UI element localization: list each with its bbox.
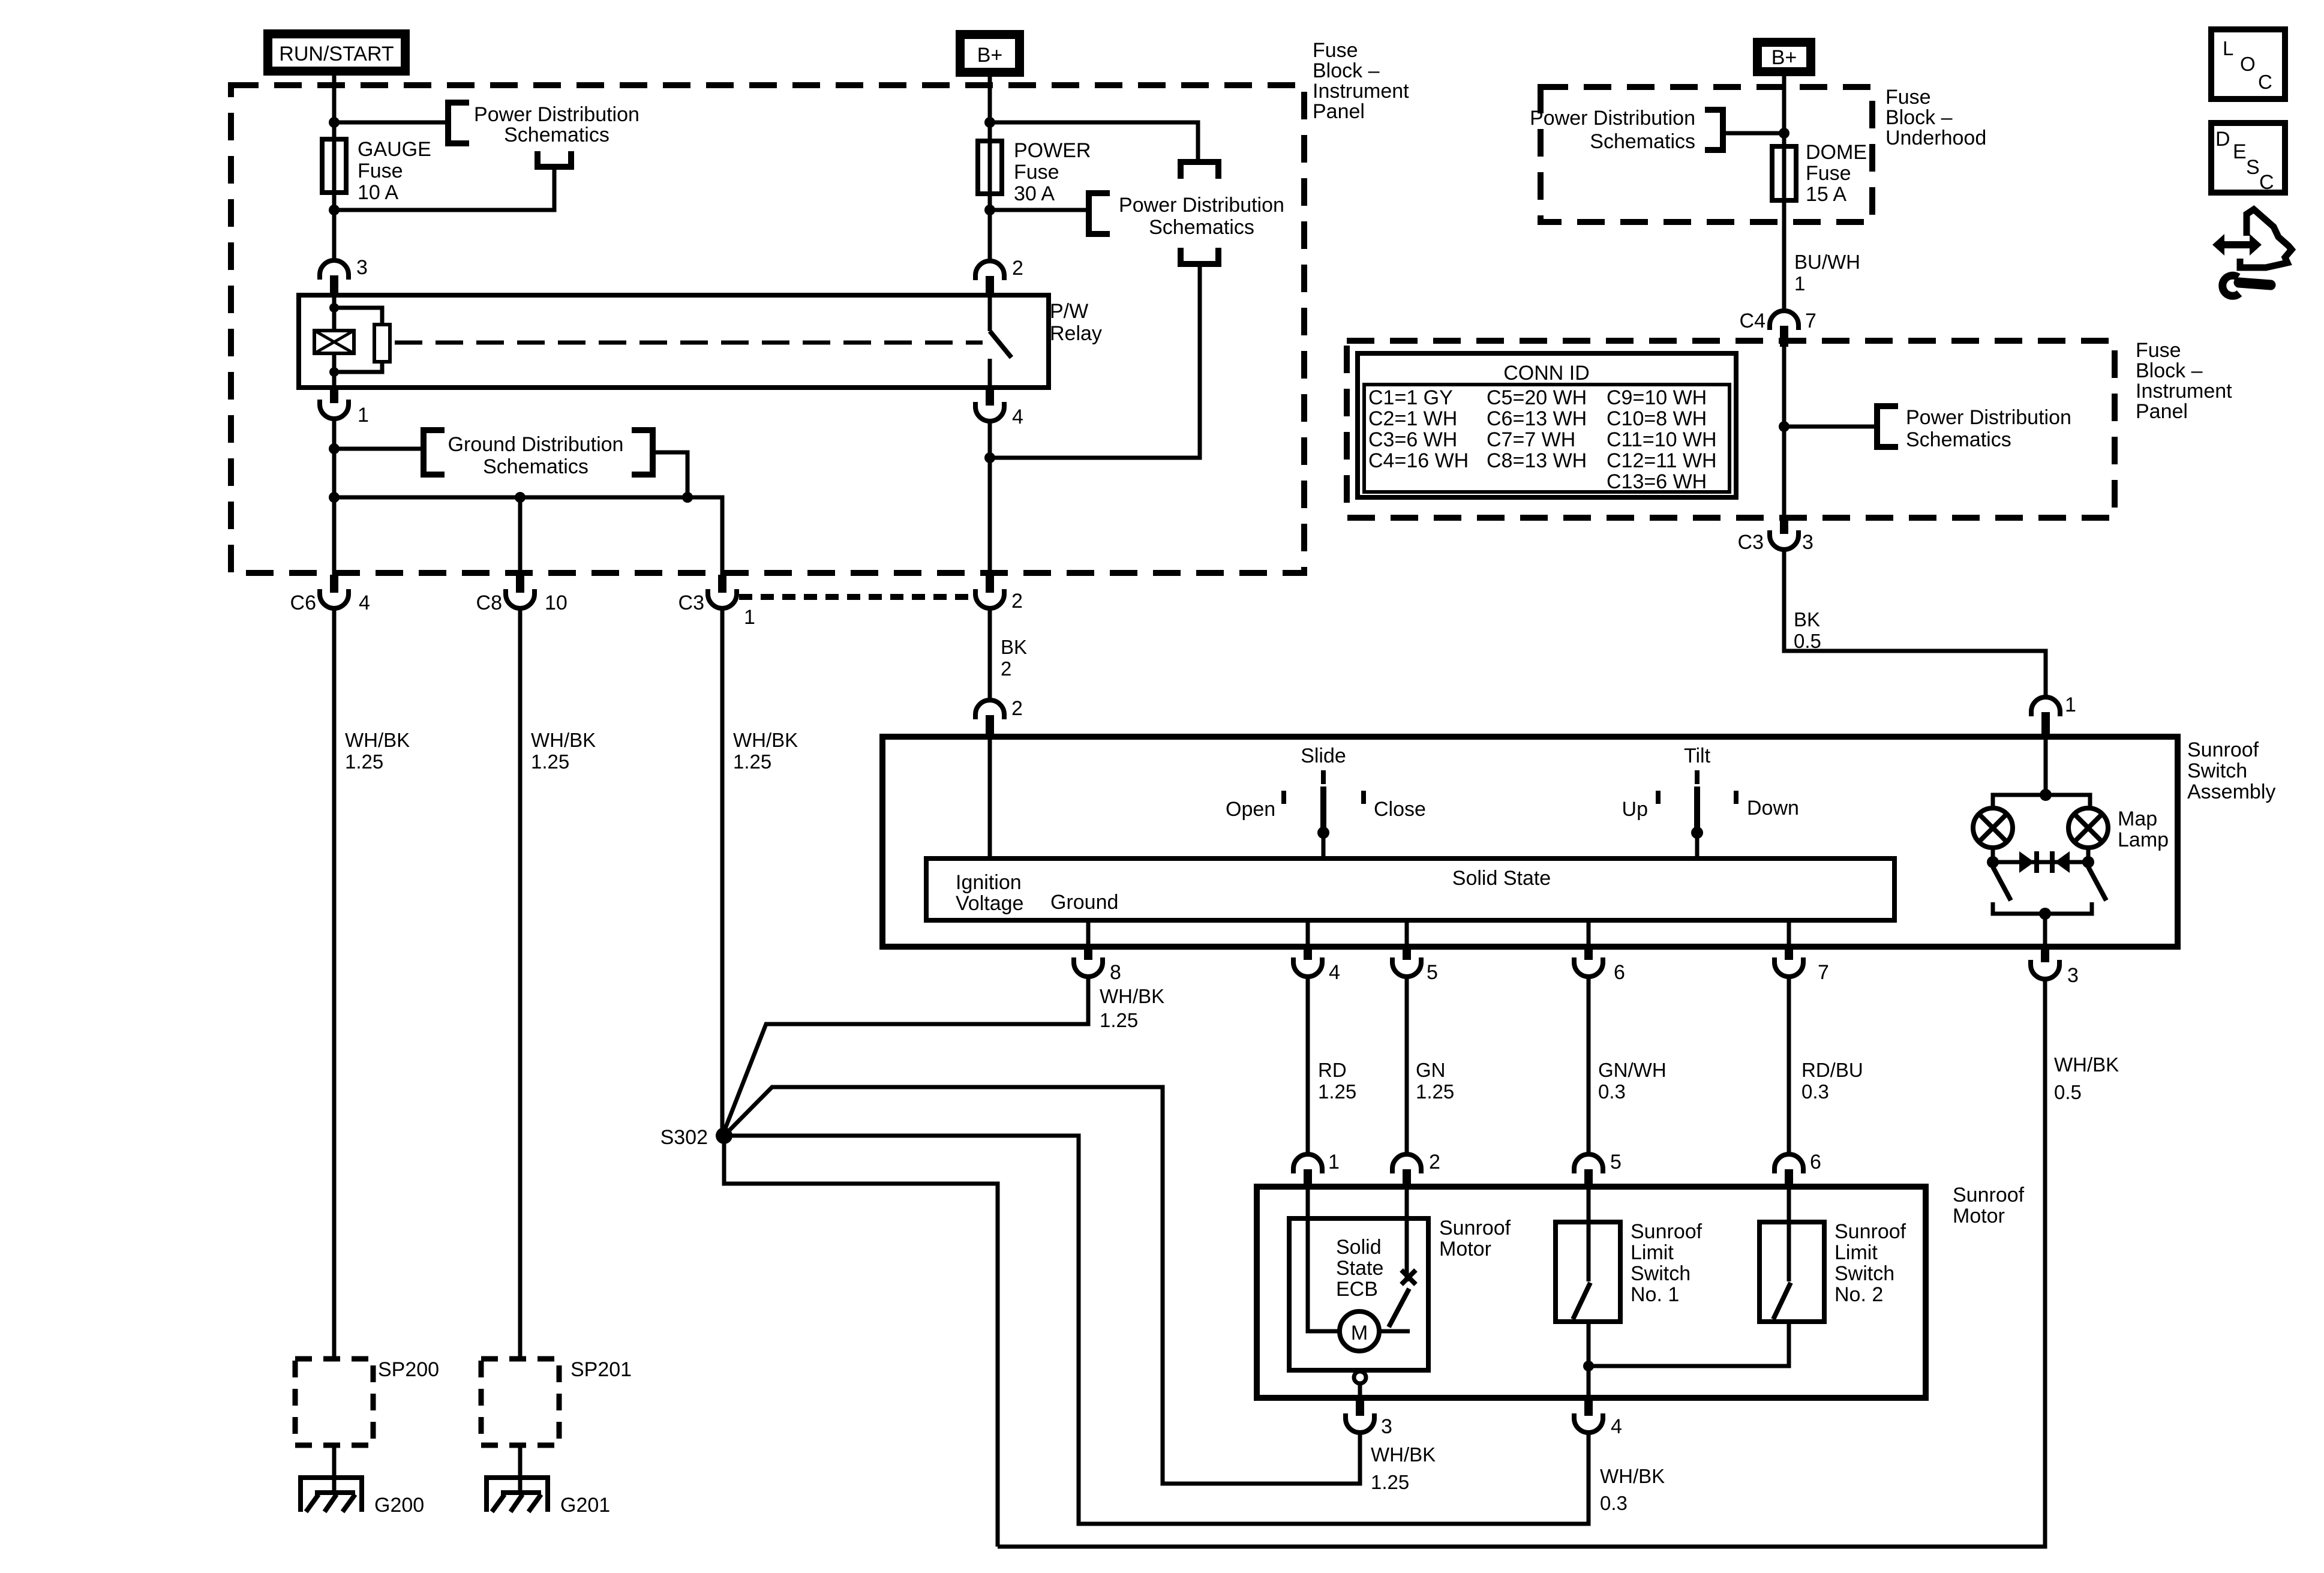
node map lamp top junction xyxy=(2040,789,2052,801)
svg-text:ECB: ECB xyxy=(1336,1278,1378,1301)
node junction below gauge fuse xyxy=(329,205,340,215)
wire label RD/BU 0.3 xyxy=(1801,1059,1863,1103)
svg-text:C6: C6 xyxy=(290,592,316,614)
svg-text:Sunroof: Sunroof xyxy=(1953,1184,2025,1206)
icon part outline xyxy=(2240,209,2292,268)
bracket PDS top (ref 2) xyxy=(1181,162,1218,179)
bracket PDS bottom return (ref 2) xyxy=(1181,248,1218,264)
wire label WH/BK 1.25 (pin 8) xyxy=(1100,985,1164,1031)
connector pin 3 of P/W relay xyxy=(320,260,349,295)
svg-text:GN: GN xyxy=(1416,1059,1446,1081)
wire bracket to B+ wire xyxy=(1723,131,1784,136)
label GAUGE Fuse 10 A xyxy=(358,138,431,204)
contact tick close xyxy=(1361,791,1366,804)
wire switch1 bottom xyxy=(1587,1322,1591,1398)
connector pin 4 of P/W relay xyxy=(975,388,1004,421)
fuse POWER 30A xyxy=(978,141,1002,210)
bracket PDS ref 4 xyxy=(1877,406,1898,447)
wire pin7 down to motor conn 6 xyxy=(1787,977,1791,1155)
svg-text:SP201: SP201 xyxy=(571,1358,632,1381)
svg-text:C5=20 WH: C5=20 WH xyxy=(1487,386,1587,409)
bracket PDS right-facing (ref 3) xyxy=(1705,110,1723,150)
svg-text:Block –: Block – xyxy=(1313,59,1380,82)
label C8 10 xyxy=(476,592,568,614)
svg-text:Open: Open xyxy=(1226,798,1275,821)
svg-text:WH/BK: WH/BK xyxy=(345,729,410,751)
icon DESC box xyxy=(2211,123,2285,194)
motor M circle xyxy=(1340,1311,1379,1351)
svg-text:C3=6 WH: C3=6 WH xyxy=(1368,428,1457,451)
relay switch contact top xyxy=(988,295,992,331)
wire S302 branch to motor pin 3 xyxy=(724,1087,1360,1484)
wire S302 branch to motor pin 4 xyxy=(724,1136,1589,1524)
svg-text:C3: C3 xyxy=(678,592,704,614)
svg-text:0.5: 0.5 xyxy=(1794,630,1821,652)
wire label BK 0.5 xyxy=(1794,608,1821,652)
bracket ground distribution right xyxy=(632,430,653,475)
wire pin7 drop xyxy=(1787,920,1791,947)
svg-text:Sunroof: Sunroof xyxy=(1631,1220,1703,1243)
wire below power fuse to left bracket xyxy=(990,208,1089,212)
wire label WH/BK 1.25 (C6) xyxy=(345,729,410,773)
svg-text:1.25: 1.25 xyxy=(733,751,771,773)
svg-text:D: D xyxy=(2215,128,2230,151)
connector C6 pin 4 xyxy=(320,575,349,608)
bracket ground distribution left xyxy=(424,430,445,475)
svg-text:C7=7 WH: C7=7 WH xyxy=(1487,428,1575,451)
label Power Distribution Schematics ref 2 xyxy=(1119,194,1284,239)
dashed box Fuse Block - Instrument Panel (right) xyxy=(1347,341,2115,518)
svg-text:C10=8 WH: C10=8 WH xyxy=(1607,407,1707,430)
svg-text:2: 2 xyxy=(1011,590,1023,613)
node junction below power fuse xyxy=(984,205,995,215)
svg-text:G200: G200 xyxy=(374,1494,424,1517)
svg-text:1.25: 1.25 xyxy=(345,751,383,773)
svg-text:Fuse: Fuse xyxy=(1313,39,1358,62)
svg-text:Schematics: Schematics xyxy=(483,455,588,478)
label Sunroof Motor (outer) xyxy=(1953,1184,2025,1227)
ECB output open circle xyxy=(1354,1371,1366,1383)
svg-text:C: C xyxy=(2259,171,2274,194)
solid state ECB box xyxy=(1289,1218,1428,1370)
svg-text:C13=6 WH: C13=6 WH xyxy=(1607,470,1707,493)
svg-text:E: E xyxy=(2233,140,2247,163)
svg-text:C9=10 WH: C9=10 WH xyxy=(1607,386,1707,409)
wire map lamp pin1 to lamp bus xyxy=(2044,738,2048,795)
wire junction to switch2 bottom xyxy=(1589,1322,1789,1366)
svg-text:15 A: 15 A xyxy=(1806,183,1846,206)
svg-text:Power Distribution: Power Distribution xyxy=(1119,194,1284,217)
wire label WH/BK 0.5 xyxy=(2054,1053,2119,1103)
svg-text:0.3: 0.3 xyxy=(1600,1492,1628,1514)
svg-text:Block –: Block – xyxy=(2136,359,2203,382)
svg-text:1.25: 1.25 xyxy=(1318,1080,1356,1103)
label Sunroof Limit Switch No. 1 xyxy=(1631,1220,1703,1306)
label C6 4 xyxy=(290,592,370,614)
svg-text:Schematics: Schematics xyxy=(1590,130,1695,153)
relay resistor branch xyxy=(334,308,390,372)
contact tick open xyxy=(1281,791,1286,804)
wire junction to PDS top bracket xyxy=(990,122,1198,159)
connector C3 pin 1 xyxy=(708,575,737,608)
svg-text:P/W: P/W xyxy=(1050,300,1088,323)
svg-text:CONN ID: CONN ID xyxy=(1503,362,1590,385)
lamp bulb right xyxy=(2068,808,2108,848)
bracket PDS left (ref 2b) xyxy=(1089,193,1110,234)
svg-text:2: 2 xyxy=(1012,257,1023,280)
connector pin 5 xyxy=(1392,947,1421,977)
label Ground Distribution Schematics xyxy=(448,433,624,478)
slide switch xyxy=(1317,770,1329,858)
svg-text:Relay: Relay xyxy=(1050,322,1102,345)
connector pin 6 xyxy=(1574,947,1603,977)
svg-text:Ground: Ground xyxy=(1050,891,1118,914)
svg-text:Schematics: Schematics xyxy=(1906,428,2011,451)
svg-text:Slide: Slide xyxy=(1301,745,1346,767)
svg-text:Sunroof: Sunroof xyxy=(2187,739,2259,761)
wire label GN/WH 0.3 xyxy=(1598,1059,1667,1103)
svg-text:DOME: DOME xyxy=(1806,141,1867,164)
svg-text:3: 3 xyxy=(356,256,368,279)
svg-text:7: 7 xyxy=(1818,961,1829,984)
svg-text:Motor: Motor xyxy=(1953,1205,2005,1227)
wire label RD 1.25 xyxy=(1318,1059,1356,1103)
connector 1 at sunroof motor xyxy=(1293,1154,1322,1188)
wire pin5 drop xyxy=(1405,920,1409,947)
svg-text:RD/BU: RD/BU xyxy=(1801,1059,1863,1081)
svg-text:S: S xyxy=(2246,156,2260,179)
label Power Distribution Schematics ref 1 xyxy=(474,103,639,146)
wire B+ down to dome fuse xyxy=(1782,76,1786,146)
connector C8 pin 10 xyxy=(506,575,535,608)
svg-text:C8=13 WH: C8=13 WH xyxy=(1487,449,1587,472)
wire lamp left to diode bus xyxy=(1991,848,1995,867)
svg-text:Down: Down xyxy=(1747,797,1799,819)
wire PDS return down and left to relay pin4 wire xyxy=(990,264,1200,458)
power feed box B+ (right) xyxy=(1753,38,1815,76)
svg-text:Instrument: Instrument xyxy=(2136,380,2232,403)
svg-text:6: 6 xyxy=(1810,1151,1821,1173)
wire return ref 1 to below fuse xyxy=(334,167,554,210)
svg-text:5: 5 xyxy=(1610,1151,1622,1173)
svg-text:C4=16 WH: C4=16 WH xyxy=(1368,449,1469,472)
wire label BU/WH 1 xyxy=(1794,251,1860,295)
svg-text:Fuse: Fuse xyxy=(358,160,403,182)
svg-text:RUN/START: RUN/START xyxy=(279,43,394,65)
label Sunroof Limit Switch No. 2 xyxy=(1834,1220,1906,1306)
wire S302 branch to bottom bus xyxy=(724,1136,998,1547)
connector C3 pin 3 xyxy=(1770,518,1798,550)
svg-text:RD: RD xyxy=(1318,1059,1347,1081)
svg-text:Solid State: Solid State xyxy=(1452,867,1551,890)
dashed box Fuse Block - Underhood xyxy=(1541,87,1872,222)
svg-text:Switch: Switch xyxy=(1834,1262,1894,1285)
wire SP201 to G201 xyxy=(518,1445,523,1493)
connector pin 4 sunroof motor xyxy=(1574,1398,1603,1433)
svg-text:8: 8 xyxy=(1110,961,1121,984)
dashed box Fuse Block - Instrument Panel (left) xyxy=(231,85,1304,573)
label DOME Fuse 15 A xyxy=(1806,141,1867,206)
wire C8 down to SP201 xyxy=(518,608,523,1359)
wire pin6 down to motor conn 5 xyxy=(1587,977,1591,1155)
wire dome fuse down to C4 xyxy=(1782,200,1786,311)
connector 2 in-line (fuse block bottom) xyxy=(975,576,1004,608)
svg-text:4: 4 xyxy=(1329,961,1340,984)
svg-text:1: 1 xyxy=(1328,1151,1340,1173)
svg-text:Map: Map xyxy=(2118,807,2157,830)
svg-text:Motor: Motor xyxy=(1439,1238,1491,1260)
svg-text:O: O xyxy=(2240,53,2256,75)
svg-text:2: 2 xyxy=(1429,1151,1440,1173)
solid state box xyxy=(926,858,1894,920)
connector pin 3 sunroof switch assembly xyxy=(2031,947,2059,979)
svg-text:WH/BK: WH/BK xyxy=(1100,985,1164,1007)
svg-text:C8: C8 xyxy=(476,592,502,614)
svg-text:1.25: 1.25 xyxy=(1416,1080,1454,1103)
svg-text:3: 3 xyxy=(1802,531,1813,554)
svg-text:WH/BK: WH/BK xyxy=(733,729,798,751)
svg-text:BK: BK xyxy=(1001,636,1027,658)
svg-text:State: State xyxy=(1336,1257,1383,1280)
svg-text:4: 4 xyxy=(359,592,370,614)
svg-text:B+: B+ xyxy=(1771,46,1797,69)
sunroof motor box xyxy=(1257,1187,1926,1398)
relay box P/W Relay xyxy=(299,295,1049,388)
wire relay pin 1 down xyxy=(332,419,337,576)
connector pin 1 of P/W relay xyxy=(320,388,349,419)
diode bus wire xyxy=(1993,860,2088,864)
relay switch blade xyxy=(990,331,1011,358)
svg-text:No. 1: No. 1 xyxy=(1631,1283,1679,1306)
svg-text:Power Distribution: Power Distribution xyxy=(1530,107,1695,130)
svg-text:B+: B+ xyxy=(977,44,1003,67)
wire conn2 to ECB switch contact xyxy=(1405,1188,1409,1281)
svg-text:WH/BK: WH/BK xyxy=(2054,1053,2119,1076)
power feed box RUN/START xyxy=(263,29,410,76)
wire label WH/BK 0.3 (motor pin 4) xyxy=(1600,1465,1665,1514)
sunroof limit switch no2 box xyxy=(1759,1222,1824,1322)
svg-text:Power Distribution: Power Distribution xyxy=(474,103,639,126)
label Solid State ECB xyxy=(1336,1236,1383,1301)
ECB switch x mark xyxy=(1401,1270,1416,1284)
label Power Distribution Schematics ref 3 xyxy=(1530,107,1695,153)
svg-text:C3: C3 xyxy=(1738,531,1764,554)
svg-text:Schematics: Schematics xyxy=(504,124,609,146)
relay switch contact bottom xyxy=(988,359,992,388)
label POWER Fuse 30 A xyxy=(1014,139,1091,205)
svg-text:Close: Close xyxy=(1374,798,1426,821)
wire label WH/BK 1.25 (motor pin 3) xyxy=(1371,1443,1436,1493)
wire pin6 drop xyxy=(1587,920,1591,947)
sunroof limit switch no1 box xyxy=(1556,1222,1620,1322)
wire C6 down to SP200 xyxy=(332,608,337,1359)
label P/W Relay xyxy=(1050,300,1102,345)
svg-text:SP200: SP200 xyxy=(378,1358,439,1381)
bracket power distribution schematics ref 1 xyxy=(448,103,469,143)
connector pin 4 xyxy=(1293,947,1322,977)
wire power fuse to relay pin 2 xyxy=(988,210,992,262)
connector 2 at sunroof switch assembly xyxy=(975,700,1004,738)
svg-text:S302: S302 xyxy=(660,1126,708,1149)
label Ignition Voltage xyxy=(956,871,1023,915)
wire conn5 into switch1 xyxy=(1587,1188,1591,1281)
wire conn1 into ECB to motor xyxy=(1308,1188,1340,1331)
svg-text:Voltage: Voltage xyxy=(956,892,1023,915)
svg-text:Limit: Limit xyxy=(1631,1241,1674,1264)
svg-text:Tilt: Tilt xyxy=(1684,745,1711,767)
svg-text:Assembly: Assembly xyxy=(2187,781,2275,803)
wire pin 3 down to bottom bus xyxy=(998,979,2045,1547)
svg-text:C12=11 WH: C12=11 WH xyxy=(1607,449,1717,472)
wire pin 8 to S302 xyxy=(724,977,1088,1131)
wire label WH/BK 1.25 (C8) xyxy=(531,729,596,773)
wire lamp right to diode bus xyxy=(2086,848,2091,867)
svg-text:10: 10 xyxy=(545,592,568,614)
map switch blade left xyxy=(1993,867,2011,900)
svg-text:1.25: 1.25 xyxy=(1100,1009,1138,1031)
wire ground bus horizontal xyxy=(334,497,722,576)
svg-text:Power Distribution: Power Distribution xyxy=(1906,406,2071,429)
svg-text:C2=1 WH: C2=1 WH xyxy=(1368,407,1457,430)
icon double arrow xyxy=(2212,234,2262,256)
wire GDS return down to ground bus xyxy=(653,452,687,497)
ECB switch blade xyxy=(1389,1289,1409,1327)
fuse DOME 15A xyxy=(1772,146,1796,200)
svg-text:WH/BK: WH/BK xyxy=(1600,1465,1665,1487)
ground G201 xyxy=(484,1478,550,1512)
wire pin4 down to motor conn 1 xyxy=(1306,977,1310,1155)
short dashed wire segment under relay area xyxy=(739,594,973,600)
map switch blade right xyxy=(2088,867,2106,900)
sunroof switch assembly box xyxy=(882,737,2178,947)
svg-text:0.3: 0.3 xyxy=(1598,1080,1626,1103)
map lamp bottom bracket xyxy=(1993,902,2092,914)
svg-text:1: 1 xyxy=(1794,272,1805,295)
node coil top junction xyxy=(329,303,339,313)
switch1 blade xyxy=(1573,1283,1590,1319)
label C3 3 xyxy=(1738,531,1813,554)
svg-text:7: 7 xyxy=(1805,310,1816,332)
conn id table xyxy=(1358,353,1736,497)
svg-text:0.5: 0.5 xyxy=(2054,1081,2082,1103)
connector 5 at sunroof motor xyxy=(1574,1154,1603,1188)
label C4 7 xyxy=(1740,310,1816,332)
svg-text:2: 2 xyxy=(1001,658,1011,680)
node junction pin4 wire with PDS return xyxy=(984,452,995,463)
wire pin4 drop xyxy=(1306,920,1310,947)
wire C8 drop xyxy=(518,497,523,576)
icon LOC box xyxy=(2211,29,2285,99)
lamp bulb left xyxy=(1973,808,2013,848)
wire lamp top bus xyxy=(1993,795,2090,808)
diode right xyxy=(2052,851,2070,873)
label Sunroof Motor (ECB) xyxy=(1439,1217,1511,1260)
tilt switch xyxy=(1691,770,1703,858)
splice S302 xyxy=(716,1127,732,1144)
svg-text:1: 1 xyxy=(2065,694,2076,716)
bracket return ref 1 xyxy=(538,151,571,167)
wire label GN 1.25 xyxy=(1416,1059,1454,1103)
label Map Lamp xyxy=(2118,807,2169,851)
svg-text:Panel: Panel xyxy=(1313,100,1365,123)
svg-text:C11=10 WH: C11=10 WH xyxy=(1607,428,1717,451)
label Fuse Block - Instrument Panel (left) xyxy=(1313,39,1409,123)
svg-text:Sunroof: Sunroof xyxy=(1834,1220,1906,1243)
connector 6 at sunroof motor xyxy=(1774,1154,1803,1188)
splice SP200 dashed box xyxy=(295,1359,373,1445)
svg-text:Underhood: Underhood xyxy=(1885,127,1986,149)
node junction switch1 bottom xyxy=(1583,1361,1594,1371)
svg-text:Fuse: Fuse xyxy=(2136,339,2181,362)
contact tick up xyxy=(1656,791,1661,804)
icon wrench xyxy=(2223,275,2271,296)
svg-text:Up: Up xyxy=(1622,798,1648,821)
wire B+ down to power fuse xyxy=(988,77,992,142)
wire C4 stub to C3 xyxy=(1782,347,1786,519)
svg-text:1: 1 xyxy=(358,404,369,427)
label Sunroof Switch Assembly xyxy=(2187,739,2275,803)
wire SP200 to G200 xyxy=(332,1445,337,1493)
node junction ground bus left xyxy=(329,492,340,503)
svg-text:L: L xyxy=(2223,37,2233,59)
relay coil xyxy=(314,331,354,353)
node junction GDS return xyxy=(682,492,693,503)
wire relay pin 4 down xyxy=(988,421,992,577)
wire map bottom to pin 3 xyxy=(2043,914,2047,947)
wire coil bottom xyxy=(332,353,337,388)
connector 2 at sunroof motor xyxy=(1392,1154,1421,1188)
wire label BK 2 xyxy=(1001,636,1027,680)
svg-text:2: 2 xyxy=(1011,697,1023,720)
node junction above dome fuse xyxy=(1779,128,1789,139)
svg-text:BU/WH: BU/WH xyxy=(1794,251,1860,273)
svg-text:Fuse: Fuse xyxy=(1885,86,1931,109)
connector pin 7 xyxy=(1774,947,1803,977)
svg-text:Switch: Switch xyxy=(2187,760,2247,782)
wire C3 pin3 to map lamp pin 1 xyxy=(1784,550,2046,698)
node coil bottom junction xyxy=(329,367,339,377)
svg-text:Ignition: Ignition xyxy=(956,871,1022,894)
diode left xyxy=(2019,851,2037,873)
wire C3 down to S302 xyxy=(720,608,725,1131)
wire ECB circle to box bottom xyxy=(1358,1383,1362,1398)
wire junction to PDS bracket ref 4 xyxy=(1784,425,1877,429)
svg-text:1.25: 1.25 xyxy=(1371,1471,1409,1493)
svg-text:Solid: Solid xyxy=(1336,1236,1382,1259)
node map bottom junction xyxy=(2039,908,2051,920)
wire ground pin drop xyxy=(1086,920,1091,947)
splice SP201 dashed box xyxy=(481,1359,559,1445)
power feed box B+ (center) xyxy=(956,30,1024,77)
switch2 blade xyxy=(1773,1283,1791,1319)
svg-text:GAUGE: GAUGE xyxy=(358,138,431,161)
wire pin5 down to motor conn 2 xyxy=(1405,977,1409,1155)
fuse GAUGE 10A xyxy=(322,139,346,210)
svg-text:No. 2: No. 2 xyxy=(1834,1283,1883,1306)
svg-text:C: C xyxy=(2258,71,2272,93)
node junction ground bus at C8 drop xyxy=(515,492,526,503)
connector pin 8 xyxy=(1074,947,1103,977)
label C3 1 xyxy=(678,592,755,629)
wire conn6 into switch2 xyxy=(1787,1188,1791,1281)
label Fuse Block - Underhood xyxy=(1885,86,1986,149)
svg-text:C6=13 WH: C6=13 WH xyxy=(1487,407,1587,430)
contact tick down xyxy=(1734,791,1739,804)
svg-text:C4: C4 xyxy=(1740,310,1765,332)
node diode bus right xyxy=(2082,856,2094,868)
svg-text:WH/BK: WH/BK xyxy=(1371,1443,1436,1466)
svg-text:4: 4 xyxy=(1012,406,1023,428)
